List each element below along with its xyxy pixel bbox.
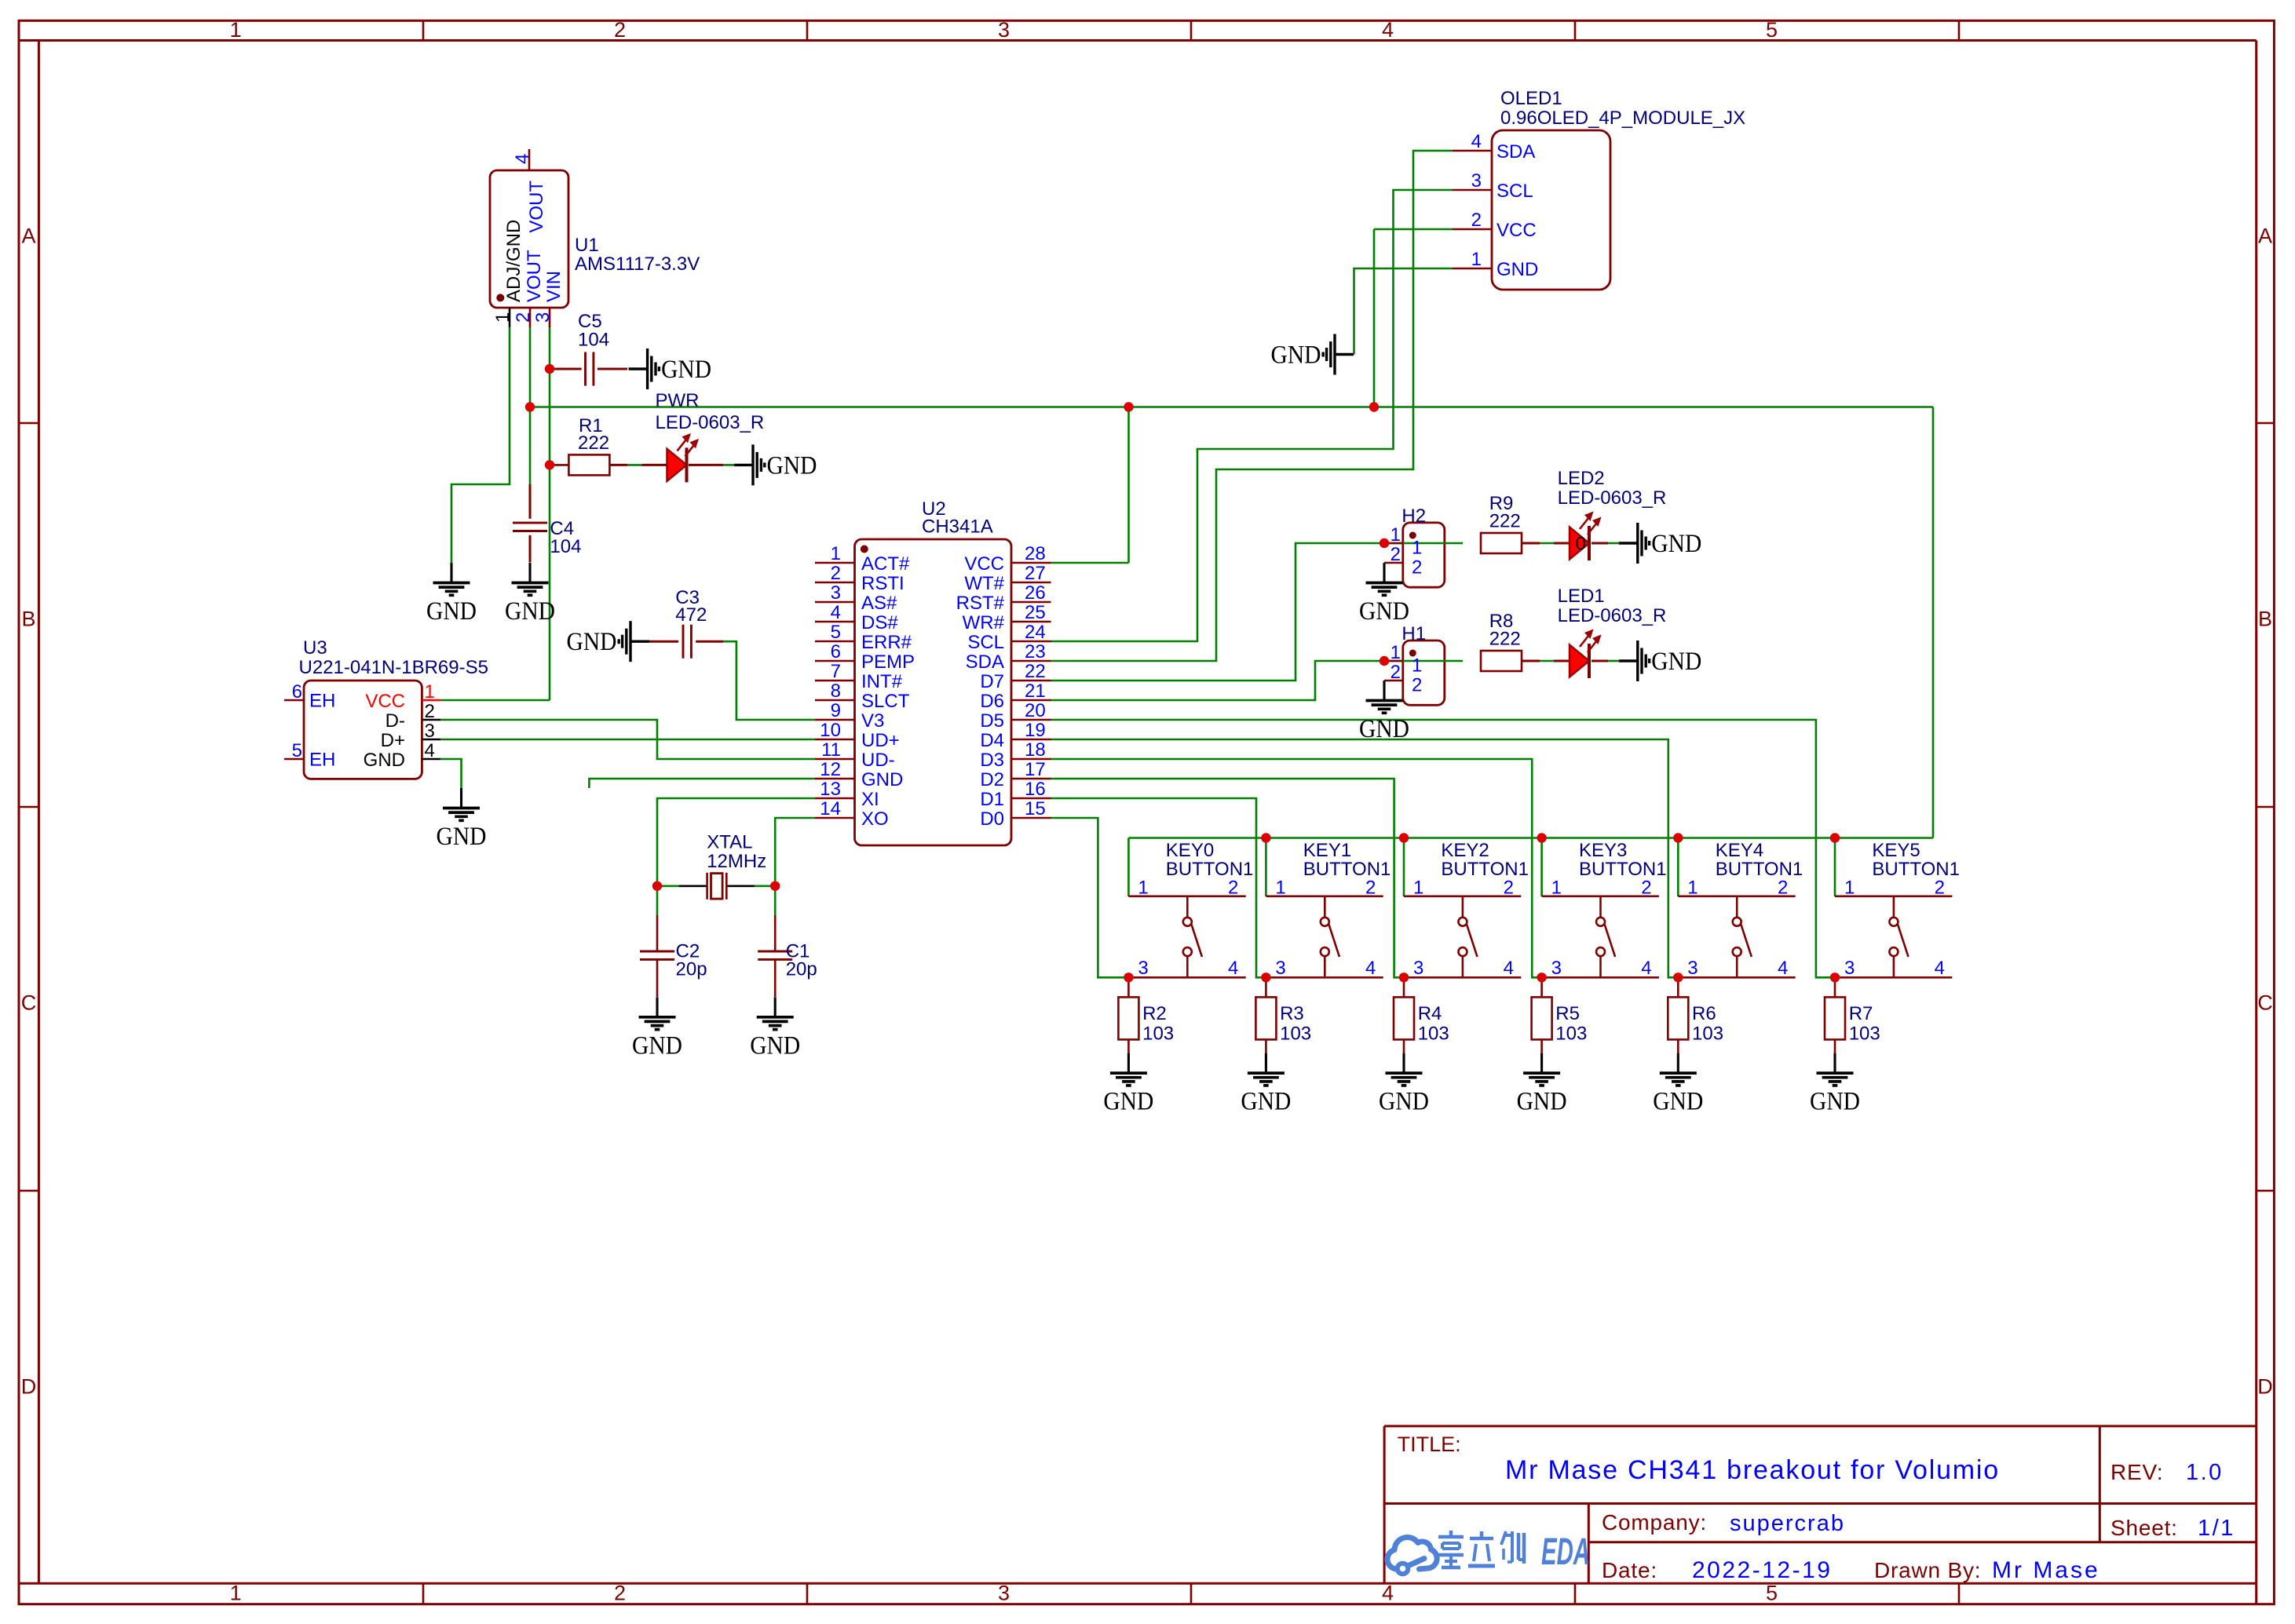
svg-text:EH: EH — [309, 691, 335, 712]
svg-text:D0: D0 — [980, 808, 1004, 830]
svg-text:3: 3 — [425, 721, 435, 742]
svg-text:D+: D+ — [381, 730, 405, 751]
svg-text:GND: GND — [426, 597, 477, 626]
svg-text:104: 104 — [578, 330, 609, 351]
svg-text:4: 4 — [1382, 18, 1394, 42]
svg-text:GND: GND — [1810, 1088, 1860, 1116]
svg-text:103: 103 — [1692, 1023, 1723, 1044]
resistor R3 103 — [1255, 977, 1311, 1053]
svg-text:UD-: UD- — [861, 750, 895, 771]
title block grid — [1384, 1426, 2257, 1583]
capacitor C4 104 — [513, 518, 581, 557]
resistor R7 103 — [1825, 977, 1880, 1053]
svg-text:KEY0: KEY0 — [1166, 840, 1214, 861]
svg-text:A: A — [21, 224, 35, 247]
svg-text:VCC: VCC — [1497, 220, 1537, 241]
svg-text:4: 4 — [1778, 958, 1788, 979]
svg-text:RSTI: RSTI — [861, 573, 904, 594]
svg-text:20p: 20p — [786, 959, 817, 980]
svg-text:GND: GND — [750, 1031, 800, 1060]
svg-text:2: 2 — [1391, 662, 1401, 683]
svg-text:23: 23 — [1025, 641, 1046, 662]
svg-text:Sheet:: Sheet: — [2110, 1516, 2178, 1540]
svg-text:5: 5 — [292, 740, 302, 761]
title block Sheet 1/1 — [2110, 1516, 2235, 1541]
svg-text:4: 4 — [1228, 958, 1238, 979]
svg-text:U1: U1 — [575, 235, 599, 256]
svg-text:1: 1 — [1687, 878, 1697, 899]
svg-text:1: 1 — [230, 18, 242, 42]
svg-text:D1: D1 — [980, 789, 1004, 810]
svg-text:1: 1 — [1138, 878, 1148, 899]
svg-text:AS#: AS# — [861, 593, 897, 614]
svg-text:1: 1 — [230, 1582, 242, 1605]
svg-text:103: 103 — [1555, 1023, 1587, 1044]
svg-text:D-: D- — [386, 710, 405, 732]
ground for H2 — [1359, 563, 1409, 626]
svg-text:6: 6 — [831, 641, 841, 662]
ground for R4 — [1379, 1053, 1429, 1116]
switch KEY4 BUTTON1 — [1678, 840, 1803, 979]
capacitor C5 104 — [578, 311, 609, 386]
wire C4 leads — [529, 484, 532, 563]
ground for U1 ADJ — [426, 563, 477, 626]
svg-text:U221-041N-1BR69-S5: U221-041N-1BR69-S5 — [299, 657, 488, 678]
svg-text:VCC: VCC — [365, 691, 405, 712]
svg-text:SCL: SCL — [1497, 181, 1533, 202]
svg-text:3: 3 — [998, 1582, 1010, 1605]
svg-text:D: D — [21, 1375, 37, 1399]
svg-text:R5: R5 — [1555, 1003, 1580, 1024]
wire OLED SDA — [1051, 151, 1453, 661]
svg-text:C: C — [21, 991, 37, 1015]
svg-text:SDA: SDA — [1497, 141, 1535, 162]
svg-text:Company:: Company: — [1602, 1510, 1707, 1535]
svg-text:B: B — [2258, 608, 2272, 631]
LED2 LED-0603_R — [1558, 468, 1667, 560]
svg-text:D2: D2 — [980, 769, 1004, 790]
svg-text:2: 2 — [1228, 878, 1238, 899]
svg-text:3: 3 — [1275, 958, 1285, 979]
svg-text:KEY2: KEY2 — [1441, 840, 1489, 861]
svg-text:4: 4 — [425, 740, 435, 761]
ground for R5 — [1517, 1053, 1567, 1116]
wire D2 to KEY2 — [1051, 779, 1405, 977]
svg-text:EDA: EDA — [1541, 1531, 1590, 1573]
svg-text:EH: EH — [309, 750, 335, 771]
svg-text:11: 11 — [821, 739, 841, 761]
header H1 box — [1403, 640, 1445, 705]
USB connector U3 U221-041N-1BR69-S5 — [284, 637, 488, 779]
svg-text:4: 4 — [1641, 958, 1651, 979]
svg-text:3: 3 — [831, 582, 841, 604]
svg-text:LED1: LED1 — [1558, 586, 1605, 607]
svg-text:R6: R6 — [1692, 1003, 1716, 1024]
svg-text:KEY4: KEY4 — [1716, 840, 1763, 861]
svg-text:21: 21 — [1025, 681, 1046, 702]
svg-text:1: 1 — [1844, 878, 1855, 899]
header H2 box — [1403, 523, 1445, 587]
svg-text:1: 1 — [1391, 524, 1401, 546]
svg-text:H2: H2 — [1401, 505, 1426, 527]
svg-text:GND: GND — [1379, 1088, 1429, 1116]
svg-text:2: 2 — [614, 1582, 626, 1605]
wire XI to crystal — [657, 798, 815, 915]
svg-text:WT#: WT# — [964, 573, 1004, 594]
svg-text:222: 222 — [1489, 511, 1521, 532]
svg-text:H1: H1 — [1401, 623, 1426, 644]
wire key pin1 drops — [1128, 838, 1835, 897]
svg-text:3: 3 — [532, 312, 554, 323]
wire R1 LED leads — [550, 464, 734, 466]
svg-text:3: 3 — [1138, 958, 1148, 979]
svg-text:OLED1: OLED1 — [1500, 88, 1562, 109]
wire OLED SCL — [1051, 190, 1453, 641]
svg-text:VCC: VCC — [964, 553, 1004, 575]
svg-text:D5: D5 — [980, 710, 1004, 732]
svg-text:9: 9 — [831, 700, 841, 721]
svg-text:2: 2 — [1641, 878, 1651, 899]
svg-text:R3: R3 — [1280, 1003, 1304, 1024]
display OLED1 0.96OLED_4P_MODULE_JX — [1453, 88, 1745, 290]
svg-text:ERR#: ERR# — [861, 632, 912, 653]
switch KEY5 BUTTON1 — [1835, 840, 1960, 979]
ground for C3 — [567, 621, 650, 662]
svg-text:GND: GND — [1271, 341, 1321, 370]
svg-text:GND: GND — [1359, 597, 1409, 626]
svg-text:3: 3 — [1844, 958, 1855, 979]
svg-text:1: 1 — [1413, 878, 1423, 899]
svg-text:INT#: INT# — [861, 671, 903, 692]
wire U3 GND — [440, 759, 461, 788]
svg-text:103: 103 — [1280, 1023, 1311, 1044]
junction dots — [525, 364, 1840, 983]
svg-text:2: 2 — [831, 563, 841, 584]
title block label TITLE — [1398, 1432, 1461, 1456]
svg-text:222: 222 — [1489, 629, 1521, 650]
resistor R9 222 — [1481, 493, 1522, 553]
svg-text:LED-0603_R: LED-0603_R — [1558, 605, 1667, 626]
svg-text:V3: V3 — [861, 710, 884, 732]
title block Date Drawn By — [1602, 1557, 2100, 1583]
svg-text:ADJ/GND: ADJ/GND — [503, 220, 524, 302]
svg-text:15: 15 — [1025, 798, 1046, 819]
svg-text:26: 26 — [1025, 582, 1046, 604]
svg-text:GND: GND — [437, 823, 487, 851]
svg-text:BUTTON1: BUTTON1 — [1303, 859, 1391, 880]
wire D4 to KEY4 — [1051, 739, 1679, 977]
svg-text:18: 18 — [1025, 739, 1046, 761]
svg-text:GND: GND — [1241, 1088, 1291, 1116]
svg-text:1: 1 — [1471, 249, 1482, 270]
svg-text:RST#: RST# — [956, 593, 1005, 614]
svg-text:2: 2 — [1778, 878, 1788, 899]
svg-text:ACT#: ACT# — [861, 553, 910, 575]
svg-text:1: 1 — [831, 543, 841, 564]
svg-text:D: D — [2257, 1375, 2273, 1399]
svg-text:2: 2 — [1391, 544, 1401, 565]
wire D3 to KEY3 — [1051, 759, 1542, 977]
title block Company supercrab — [1602, 1510, 1845, 1536]
svg-text:SCL: SCL — [967, 632, 1004, 653]
svg-text:VIN: VIN — [543, 271, 565, 302]
svg-text:5: 5 — [1766, 1582, 1778, 1605]
svg-text:4: 4 — [1365, 958, 1376, 979]
switch KEY3 BUTTON1 — [1542, 840, 1667, 979]
svg-text:20p: 20p — [676, 959, 707, 980]
svg-text:472: 472 — [675, 604, 707, 626]
wire USB D+ to UD+ — [440, 739, 815, 741]
svg-text:13: 13 — [820, 779, 841, 800]
wire XO to crystal — [755, 818, 815, 915]
svg-text:A: A — [2258, 224, 2272, 247]
svg-text:2: 2 — [1935, 878, 1945, 899]
svg-text:1: 1 — [1275, 878, 1285, 899]
svg-text:Drawn By:: Drawn By: — [1874, 1558, 1981, 1582]
svg-text:103: 103 — [1849, 1023, 1880, 1044]
svg-text:14: 14 — [820, 798, 841, 819]
svg-text:R2: R2 — [1142, 1003, 1167, 1024]
EasyEDA logo — [1387, 1531, 1590, 1574]
svg-text:17: 17 — [1025, 759, 1046, 780]
svg-text:1: 1 — [1551, 878, 1562, 899]
svg-text:3: 3 — [1471, 170, 1482, 192]
IC U2 CH341A — [815, 498, 1051, 845]
svg-text:3: 3 — [1551, 958, 1562, 979]
svg-text:104: 104 — [550, 536, 581, 557]
header H2 pins — [1384, 505, 1426, 578]
svg-text:VOUT: VOUT — [524, 250, 545, 302]
wire USB D- to UD- — [440, 720, 815, 759]
svg-text:1: 1 — [1391, 642, 1401, 663]
svg-text:KEY5: KEY5 — [1872, 840, 1920, 861]
svg-text:BUTTON1: BUTTON1 — [1579, 859, 1667, 880]
svg-text:0: 0 — [1576, 534, 1586, 555]
svg-text:4: 4 — [831, 602, 841, 623]
switch KEY1 BUTTON1 — [1266, 840, 1391, 979]
svg-text:7: 7 — [831, 661, 841, 682]
svg-text:3: 3 — [1413, 958, 1423, 979]
wire D1 to KEY1 — [1051, 798, 1266, 977]
svg-text:0.96OLED_4P_MODULE_JX: 0.96OLED_4P_MODULE_JX — [1500, 108, 1745, 129]
svg-text:8: 8 — [831, 681, 841, 702]
LED1 LED-0603_R — [1558, 586, 1667, 678]
svg-text:LED-0603_R: LED-0603_R — [656, 412, 765, 433]
svg-text:XO: XO — [861, 808, 889, 830]
svg-text:WR#: WR# — [963, 612, 1005, 633]
svg-text:PEMP: PEMP — [861, 651, 915, 673]
svg-text:KEY1: KEY1 — [1303, 840, 1351, 861]
svg-text:4: 4 — [1504, 958, 1514, 979]
svg-text:DS#: DS# — [861, 612, 898, 633]
net label 0 — [1576, 534, 1586, 555]
capacitor C1 20p — [758, 915, 817, 997]
ground for C2 — [632, 997, 682, 1060]
ground for LED1 — [1619, 640, 1702, 681]
wire H1 to R8 LED1 — [1384, 660, 1620, 662]
svg-text:2: 2 — [425, 701, 435, 722]
wire C3 to V3 — [723, 641, 815, 720]
switch KEY0 BUTTON1 — [1128, 840, 1253, 979]
ground for R2 — [1103, 1053, 1153, 1116]
svg-text:R4: R4 — [1418, 1003, 1442, 1024]
svg-text:1.0: 1.0 — [2186, 1460, 2224, 1485]
svg-text:5: 5 — [831, 622, 841, 643]
resistor R8 222 — [1481, 611, 1522, 671]
svg-text:4: 4 — [1471, 131, 1482, 152]
svg-text:GND: GND — [1497, 259, 1538, 280]
svg-text:22: 22 — [1025, 661, 1046, 682]
svg-text:GND: GND — [1359, 715, 1409, 743]
wire 5V VIN net — [440, 327, 550, 700]
svg-text:PWR: PWR — [656, 390, 700, 411]
svg-text:BUTTON1: BUTTON1 — [1872, 859, 1960, 880]
svg-text:Mr Mase: Mr Mase — [1992, 1557, 2100, 1583]
svg-text:SLCT: SLCT — [861, 691, 910, 712]
ground for R6 — [1653, 1053, 1703, 1116]
svg-text:UD+: UD+ — [861, 730, 900, 751]
svg-text:1: 1 — [1412, 655, 1422, 677]
svg-text:GND: GND — [861, 769, 903, 790]
svg-text:103: 103 — [1142, 1023, 1174, 1044]
ground for PWR LED — [734, 444, 817, 485]
svg-text:GND: GND — [1651, 648, 1701, 676]
ground for OLED — [1271, 334, 1354, 375]
svg-text:LED2: LED2 — [1558, 468, 1605, 489]
svg-text:U3: U3 — [303, 637, 327, 659]
svg-text:XI: XI — [861, 789, 879, 810]
svg-text:12MHz: 12MHz — [707, 851, 766, 872]
svg-text:AMS1117-3.3V: AMS1117-3.3V — [575, 254, 700, 275]
svg-text:BUTTON1: BUTTON1 — [1166, 859, 1254, 880]
svg-text:25: 25 — [1025, 602, 1046, 623]
svg-text:28: 28 — [1025, 543, 1046, 564]
svg-text:GND: GND — [1651, 530, 1701, 558]
svg-text:GND: GND — [632, 1031, 682, 1060]
resistor R4 103 — [1394, 977, 1449, 1053]
svg-text:B: B — [21, 608, 35, 631]
wire D0 to KEY0 — [1051, 818, 1129, 977]
title text — [1505, 1455, 2000, 1485]
ground for C1 — [750, 997, 800, 1060]
ground for U3 — [437, 788, 487, 851]
resistor R6 103 — [1668, 977, 1723, 1053]
svg-text:2: 2 — [1412, 557, 1422, 578]
svg-text:3: 3 — [1687, 958, 1697, 979]
svg-text:GND: GND — [1653, 1088, 1703, 1116]
svg-text:D7: D7 — [980, 671, 1004, 692]
svg-text:Date:: Date: — [1602, 1558, 1657, 1582]
ground below C4 — [505, 563, 555, 626]
wire C3 leads — [649, 640, 723, 643]
ground for H1 — [1359, 681, 1409, 743]
svg-text:KEY3: KEY3 — [1579, 840, 1627, 861]
svg-text:2: 2 — [1365, 878, 1376, 899]
header H1 pins — [1384, 623, 1426, 696]
LED PWR LED-0603_R — [656, 390, 765, 482]
wire D6 to H1 — [1051, 661, 1385, 700]
svg-text:D4: D4 — [980, 730, 1004, 751]
svg-text:1: 1 — [492, 312, 513, 323]
svg-text:24: 24 — [1025, 622, 1046, 643]
wire U1 ADJ to GND — [451, 327, 510, 563]
crystal XTAL 12MHz — [679, 832, 767, 900]
resistor R5 103 — [1532, 977, 1588, 1053]
ground for C5 — [629, 349, 712, 389]
wire OLED GND — [1354, 268, 1453, 355]
wire C5 leads — [550, 368, 627, 370]
svg-text:27: 27 — [1025, 563, 1046, 584]
svg-text:2: 2 — [1412, 675, 1422, 696]
svg-text:2: 2 — [614, 18, 626, 42]
voltage regulator U1 AMS1117-3.3V — [490, 149, 700, 327]
ground for R7 — [1810, 1053, 1860, 1116]
svg-text:XTAL: XTAL — [707, 832, 752, 853]
title block REV 1.0 — [2110, 1460, 2224, 1485]
svg-text:2: 2 — [513, 312, 534, 323]
switch KEY2 BUTTON1 — [1404, 840, 1529, 979]
svg-text:1: 1 — [425, 681, 435, 703]
resistor R2 103 — [1118, 977, 1174, 1053]
svg-text:D6: D6 — [980, 691, 1004, 712]
svg-text:R7: R7 — [1849, 1003, 1873, 1024]
wire U2 GND pin12 — [589, 779, 815, 788]
svg-text:BUTTON1: BUTTON1 — [1716, 859, 1803, 880]
wire D7 to H2 — [1051, 543, 1385, 681]
svg-text:12: 12 — [820, 759, 841, 780]
svg-text:Mr Mase CH341 breakout for Vol: Mr Mase CH341 breakout for Volumio — [1505, 1455, 2000, 1485]
ground for R3 — [1241, 1053, 1291, 1116]
svg-text:GND: GND — [1103, 1088, 1153, 1116]
capacitor C2 20p — [640, 915, 707, 997]
svg-text:2022-12-19: 2022-12-19 — [1692, 1557, 1832, 1583]
svg-text:103: 103 — [1418, 1023, 1449, 1044]
svg-text:10: 10 — [820, 720, 841, 741]
svg-text:LED-0603_R: LED-0603_R — [1558, 487, 1667, 509]
resistor R1 222 — [568, 415, 609, 475]
svg-text:2: 2 — [1471, 210, 1482, 231]
svg-text:4: 4 — [512, 154, 533, 164]
svg-text:20: 20 — [1025, 700, 1046, 721]
svg-text:REV:: REV: — [2110, 1460, 2164, 1484]
svg-text:GND: GND — [364, 750, 405, 771]
svg-text:supercrab: supercrab — [1730, 1511, 1845, 1536]
svg-text:5: 5 — [1766, 18, 1778, 42]
svg-text:GND: GND — [505, 597, 555, 626]
svg-text:19: 19 — [1025, 720, 1046, 741]
ground for LED2 — [1619, 523, 1702, 564]
svg-text:2: 2 — [1504, 878, 1514, 899]
svg-text:1/1: 1/1 — [2198, 1516, 2235, 1541]
svg-text:GND: GND — [1517, 1088, 1567, 1116]
svg-text:TITLE:: TITLE: — [1398, 1432, 1461, 1456]
svg-text:4: 4 — [1382, 1582, 1394, 1605]
svg-text:VOUT: VOUT — [526, 181, 547, 233]
wire D5 to KEY5 — [1051, 720, 1836, 977]
svg-text:222: 222 — [578, 432, 609, 454]
capacitor C3 472 — [675, 587, 707, 659]
svg-text:GND: GND — [661, 356, 711, 384]
svg-text:C: C — [2257, 991, 2273, 1015]
svg-text:4: 4 — [1935, 958, 1945, 979]
svg-text:BUTTON1: BUTTON1 — [1441, 859, 1529, 880]
svg-text:GND: GND — [767, 451, 817, 480]
svg-text:CH341A: CH341A — [922, 516, 993, 538]
wire H2 to R9 LED2 — [1384, 542, 1620, 545]
svg-text:D3: D3 — [980, 750, 1004, 771]
svg-text:GND: GND — [567, 628, 617, 656]
wire PWR 3.3V net — [530, 229, 1933, 838]
